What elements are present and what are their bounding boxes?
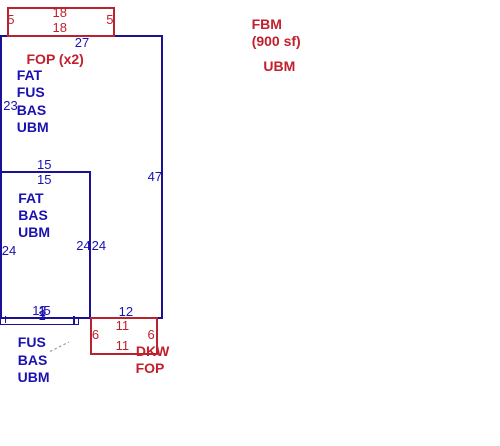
dimension 24 (inner rectangle left edge): [2, 245, 16, 257]
label UBM (stoop annotation): [18, 370, 50, 384]
label BAS (upper area): [17, 103, 47, 117]
dimension 5 (porch right edge): [106, 14, 113, 26]
label FAT (inner rectangle): [18, 191, 43, 205]
dimension 15 (inner rectangle bottom edge, overlapping): [39, 306, 46, 318]
label FUS (stoop annotation): [18, 335, 46, 349]
stoop left end tick: [5, 316, 7, 324]
dimension 18 (porch bottom edge): [53, 22, 67, 34]
dimension 6 (red rect left edge): [92, 329, 99, 341]
label FBM (legend, top right): [252, 17, 282, 31]
dimension 15 (above inner rectangle top edge): [37, 159, 51, 171]
label BAS (stoop annotation): [18, 353, 48, 367]
dimension 24 (inner rectangle right edge, inside): [76, 240, 90, 252]
area outline: inner blue rectangle (lower-left wing): [0, 171, 91, 319]
label UBM (inner rectangle): [18, 225, 50, 239]
dimension 18 (porch top edge): [53, 7, 67, 19]
dimension 15 (inner rectangle top edge, inside): [37, 174, 51, 186]
label DKW: [136, 344, 169, 358]
label (900 sf) (legend): [252, 34, 301, 48]
dimension 11 (red rect top edge): [116, 320, 130, 332]
dimension 24 (main area, right of shared wall): [92, 240, 106, 252]
area outline: stoop strip (thin blue rectangle): [0, 317, 79, 325]
label UBM (upper area): [17, 120, 49, 134]
label BAS (inner rectangle): [18, 208, 48, 222]
dimension 47 (main right edge): [148, 171, 162, 183]
label FAT (upper area): [17, 68, 42, 82]
area outline: bottom red rectangle (DKW/FOP): [90, 317, 158, 355]
leader line (dashed, from FUS text toward stoop): [0, 0, 100, 400]
label FUS (upper area): [17, 85, 45, 99]
dimension 6 (red rect right edge): [147, 329, 154, 341]
dimension 13 (main bottom-left segment): [32, 305, 39, 317]
dimension 5 (porch left edge): [7, 14, 14, 26]
label FOP (bottom): [136, 361, 165, 375]
dimension 23 (main left edge upper): [3, 100, 17, 112]
area outline: main dwelling (large blue rectangle): [0, 35, 163, 319]
label UBM (legend): [263, 59, 295, 73]
dimension 12 (main bottom edge right part): [119, 306, 133, 318]
stoop right end tick: [73, 316, 75, 325]
dimension 11 (red rect bottom edge): [116, 340, 130, 352]
label FOP (x2): [27, 52, 84, 66]
dimension 13 (stoop top edge, overlapping lower): [39, 310, 46, 322]
area outline: top red porch (FOP x2): [7, 7, 115, 38]
dimension 27 (main top edge): [75, 37, 89, 49]
